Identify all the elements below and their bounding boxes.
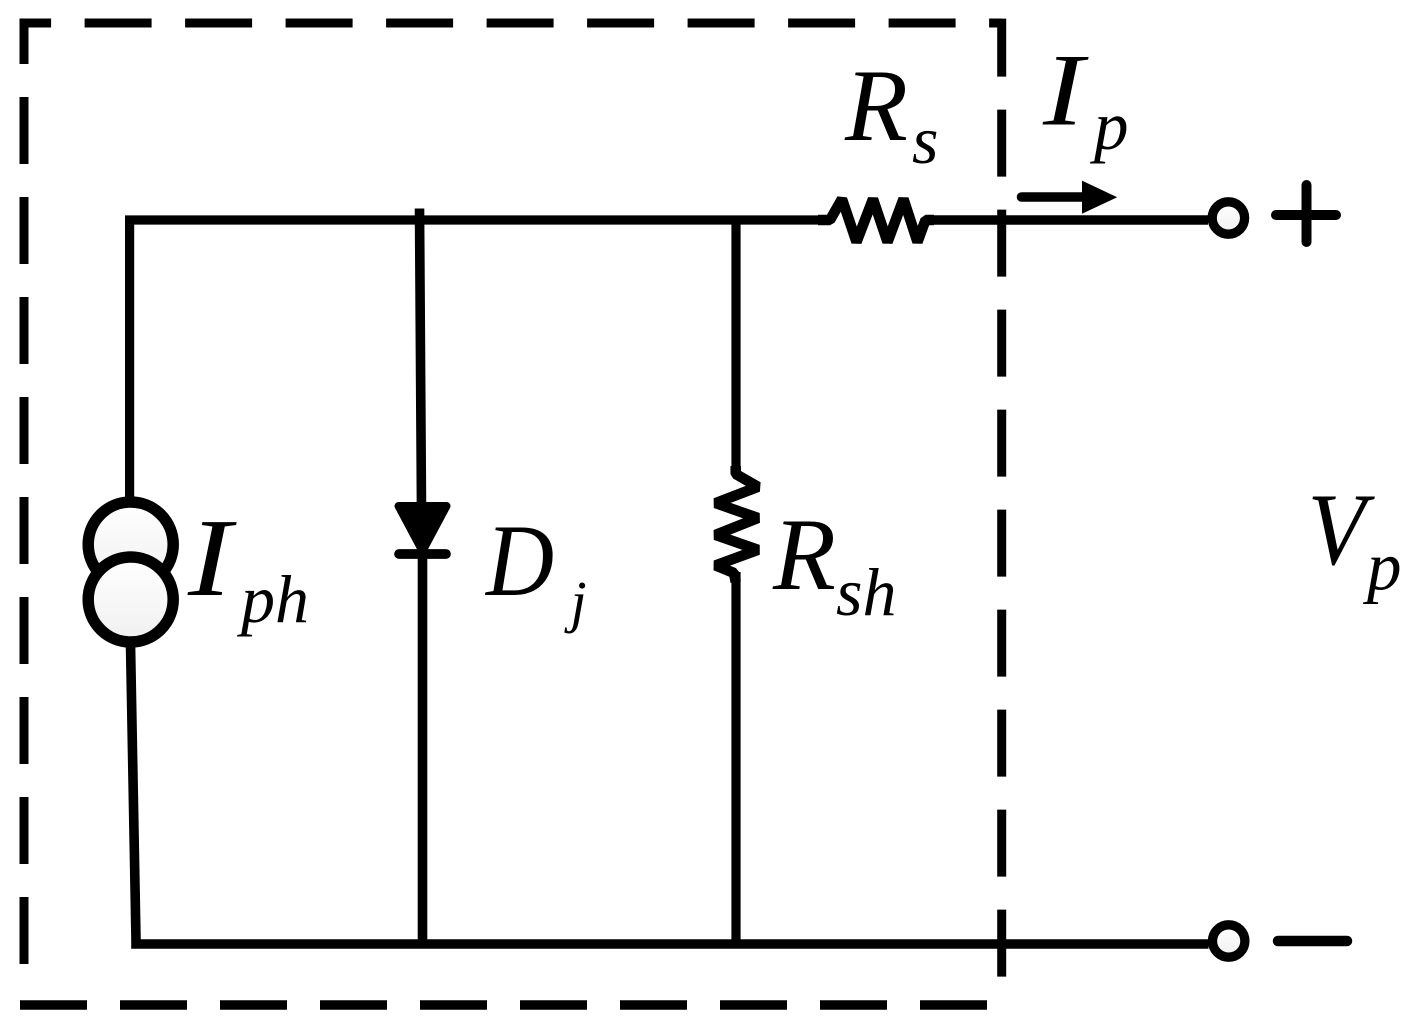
label I_p [1042,34,1129,164]
resistor R_s zigzag [818,199,934,242]
PV cell boundary: dashed left side [20,19,29,996]
label R_sh [772,498,896,630]
wire: left branch bottom + bottom rail [131,644,1209,944]
svg-text:I: I [187,497,238,620]
wire: shunt branch top [731,220,740,476]
PV cell boundary: dashed top side [20,19,1002,28]
svg-text:R: R [844,49,908,163]
wire: left branch top + top rail left segment [130,220,830,497]
current arrow I_p [1022,181,1118,214]
svg-text:V: V [1307,474,1375,587]
minus sign [1278,936,1347,947]
label I_ph [187,497,309,637]
svg-text:p: p [1362,529,1402,605]
label D_j [484,504,587,634]
svg-text:R: R [772,498,836,612]
terminal node - (bottom output) [1213,925,1245,957]
svg-text:D: D [484,504,554,618]
PV cell boundary: dashed right side [997,19,1006,985]
plus sign [1276,185,1336,242]
wire: shunt branch bottom [731,572,740,944]
diode D_j symbol (triangle + cathode bar) [399,506,447,554]
svg-text:sh: sh [836,554,896,630]
current source I_ph (two overlapping circles) [88,502,173,642]
svg-text:s: s [912,102,938,178]
terminal node + (top output) [1212,202,1244,234]
wire: diode branch [420,209,423,945]
svg-text:ph: ph [237,561,309,637]
wire: top rail right segment [925,215,1208,225]
label R_s [844,49,938,178]
label V_p [1307,474,1401,605]
svg-text:p: p [1089,88,1129,164]
resistor R_sh zigzag [716,466,759,582]
svg-text:I: I [1042,34,1090,148]
PV cell boundary: dashed bottom side [20,1000,992,1010]
